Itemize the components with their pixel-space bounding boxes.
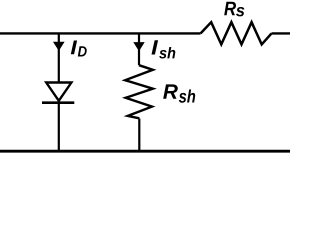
current arrow Ish: [133, 42, 144, 51]
current label Ish: [152, 40, 176, 58]
diode D1: [42, 83, 74, 103]
resistor Rs (series, in top rail): [201, 22, 272, 44]
current label ID: [71, 41, 87, 57]
wire: top rail left segment: [0, 32, 201, 34]
value label Rs: [224, 2, 244, 17]
value label Rsh: [163, 84, 195, 102]
wire: shunt branch upper segment: [138, 33, 140, 65]
wire: diode branch lower segment: [58, 103, 60, 152]
resistor Rsh (shunt) zigzag: [125, 65, 153, 118]
wire: shunt branch lower segment: [138, 119, 140, 152]
current arrow ID: [53, 42, 65, 51]
wire: diode branch upper segment: [58, 33, 60, 82]
wire: bottom rail: [0, 150, 290, 153]
wire: top rail right segment: [272, 32, 291, 34]
